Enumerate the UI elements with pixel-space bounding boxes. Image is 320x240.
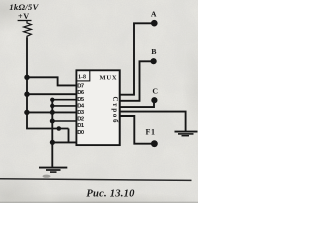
svg-text:+V: +V — [18, 12, 30, 21]
svg-text:Рис. 13.10: Рис. 13.10 — [86, 189, 135, 200]
svg-text:1kΩ/5V: 1kΩ/5V — [9, 2, 39, 12]
svg-text:1–8: 1–8 — [78, 75, 86, 81]
svg-text:F1: F1 — [146, 128, 156, 137]
svg-text:MUX: MUX — [100, 74, 118, 81]
svg-text:Строб: Строб — [111, 97, 118, 125]
svg-text:B: B — [151, 47, 156, 56]
svg-text:D7: D7 — [77, 84, 84, 90]
svg-text:A: A — [151, 9, 157, 18]
svg-text:D2: D2 — [77, 117, 84, 123]
svg-text:C: C — [152, 86, 158, 95]
svg-text:D0: D0 — [77, 130, 84, 136]
